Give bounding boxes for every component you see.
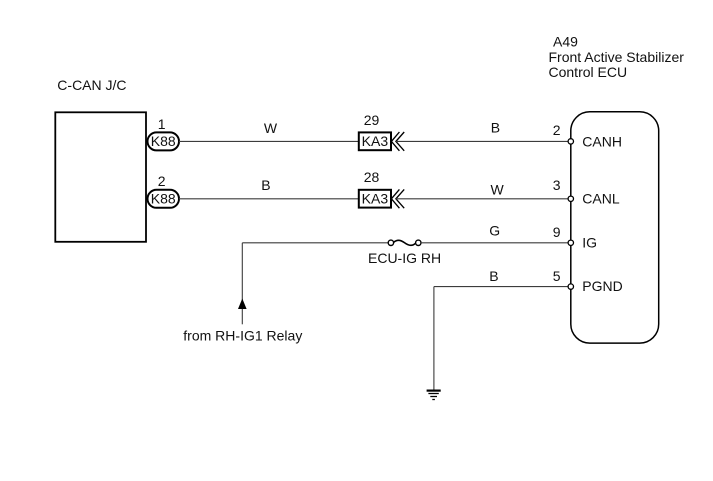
wire IG horizontal right of fuse [421, 242, 568, 244]
svg-text:G: G [489, 222, 500, 238]
svg-text:29: 29 [364, 112, 380, 128]
ECU pin 3 terminal [568, 196, 573, 201]
svg-text:K88: K88 [151, 133, 176, 149]
ground symbol [427, 391, 441, 400]
svg-text:28: 28 [364, 169, 380, 185]
svg-text:B: B [261, 177, 270, 193]
fuse ECU-IG RH element [394, 240, 416, 245]
svg-text:from RH-IG1 Relay: from RH-IG1 Relay [183, 328, 302, 344]
wire PGND vertical drop [433, 287, 435, 390]
svg-text:CANH: CANH [582, 133, 622, 149]
ECU pin 5 terminal [568, 284, 573, 289]
fuse ECU-IG RH left terminal [388, 240, 393, 245]
arrow from RH-IG1 Relay [238, 299, 247, 310]
svg-text:IG: IG [582, 235, 597, 251]
svg-text:3: 3 [553, 177, 561, 193]
svg-text:K88: K88 [151, 191, 176, 207]
wire IG horizontal left of fuse [242, 242, 388, 244]
connector K88 pin 2 [148, 190, 180, 208]
svg-text:Front Active Stabilizer: Front Active Stabilizer [549, 49, 685, 65]
svg-text:Control ECU: Control ECU [549, 64, 628, 80]
svg-text:2: 2 [553, 122, 561, 138]
ECU pin 9 terminal [568, 240, 573, 245]
svg-text:ECU-IG RH: ECU-IG RH [368, 250, 441, 266]
wire CANL right segment [396, 198, 568, 200]
svg-text:W: W [491, 181, 505, 197]
svg-text:A49: A49 [553, 34, 578, 50]
svg-text:9: 9 [553, 224, 561, 240]
svg-text:C-CAN J/C: C-CAN J/C [57, 77, 126, 93]
connector K88 pin 1 [148, 132, 180, 150]
wire CANH right segment [396, 140, 568, 142]
wire IG vertical drop [241, 243, 243, 324]
wire CANH left segment [179, 140, 359, 142]
svg-text:1: 1 [158, 116, 166, 132]
svg-text:PGND: PGND [582, 278, 622, 294]
svg-text:2: 2 [158, 173, 166, 189]
junction box C-CAN J/C [55, 112, 146, 242]
wire CANL left segment [179, 198, 359, 200]
svg-text:KA3: KA3 [362, 133, 389, 149]
connector KA3 pin 29 [359, 132, 391, 150]
shield chevrons at KA3 pin 29 [391, 132, 404, 151]
fuse ECU-IG RH right terminal [416, 240, 421, 245]
svg-text:5: 5 [553, 268, 561, 284]
svg-text:B: B [489, 268, 498, 284]
svg-text:W: W [264, 120, 278, 136]
svg-text:KA3: KA3 [362, 191, 389, 207]
ECU A49 body [571, 112, 659, 343]
wire PGND horizontal [434, 286, 568, 288]
svg-text:B: B [491, 119, 500, 135]
ECU pin 2 terminal [568, 139, 573, 144]
connector KA3 pin 28 [359, 190, 391, 208]
svg-text:CANL: CANL [582, 191, 620, 207]
shield chevrons at KA3 pin 28 [391, 189, 404, 208]
